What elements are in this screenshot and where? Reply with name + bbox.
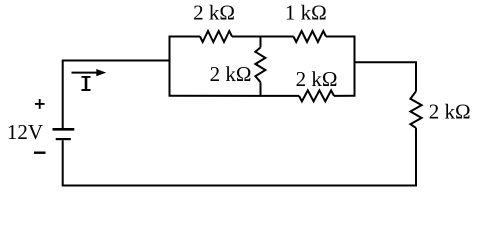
label + (battery positive)	[35, 99, 45, 109]
svg-text:2 kΩ: 2 kΩ	[429, 100, 471, 124]
label I	[82, 77, 91, 90]
svg-text:2 kΩ: 2 kΩ	[296, 67, 338, 91]
resistor R4 2 kOhm (bottom)	[299, 90, 334, 101]
wire: top edge segments	[169, 36, 356, 38]
label - (battery negative)	[34, 151, 46, 153]
svg-text:2 kΩ: 2 kΩ	[210, 62, 252, 86]
wire: exit wire from box right edge to right branch top	[355, 62, 417, 91]
wire: bottom edge segments	[169, 95, 356, 97]
svg-text:1 kΩ: 1 kΩ	[285, 1, 327, 25]
node box: left edge	[169, 37, 171, 96]
wire: middle vertical stubs	[260, 37, 262, 96]
current arrow I	[72, 72, 99, 74]
svg-text:2 kΩ: 2 kΩ	[193, 1, 235, 25]
battery V1 12V: short negative plate	[56, 138, 71, 140]
svg-text:12V: 12V	[7, 120, 43, 144]
resistor R1 2 kOhm (top left)	[200, 31, 232, 42]
battery V1 12V: long positive plate	[53, 128, 75, 131]
resistor R3 2 kOhm (middle vertical)	[255, 47, 265, 82]
resistor R2 1 kOhm (top right)	[294, 31, 327, 42]
wire: bottom wire from battery around to right branch	[63, 128, 416, 186]
node box: right edge	[354, 37, 356, 96]
wire: top wire from battery to network box	[63, 61, 170, 129]
resistor R5 2 kOhm (right vertical)	[410, 91, 421, 128]
